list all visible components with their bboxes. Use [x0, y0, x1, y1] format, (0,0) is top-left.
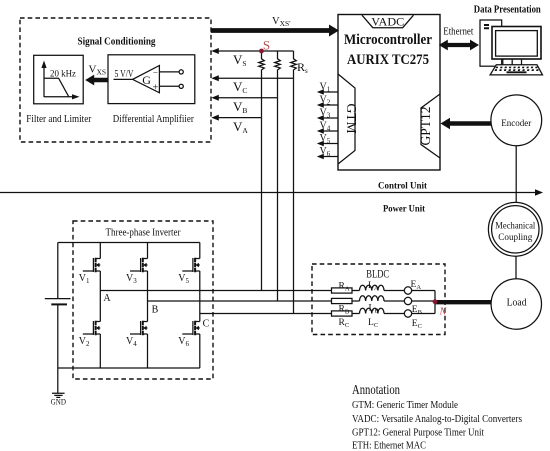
svg-text:C: C: [203, 319, 210, 330]
svg-text:G: G: [142, 73, 151, 87]
svg-text:AURIX TC275: AURIX TC275: [347, 52, 429, 68]
svg-text:B: B: [152, 305, 159, 316]
svg-text:Power Unit: Power Unit: [383, 204, 425, 214]
svg-text:Filter and Limiter: Filter and Limiter: [26, 114, 91, 125]
svg-text:GPT12: GPT12: [418, 106, 433, 145]
svg-text:Control Unit: Control Unit: [378, 181, 427, 191]
svg-text:20 kHz: 20 kHz: [50, 70, 76, 80]
svg-text:Differential Amplifiier: Differential Amplifiier: [113, 114, 194, 125]
svg-text:Three-phase Inverter: Three-phase Inverter: [106, 228, 182, 239]
svg-text:Data Presentation: Data Presentation: [474, 5, 541, 16]
svg-text:Annotation: Annotation: [352, 382, 400, 397]
svg-text:GND: GND: [51, 397, 66, 406]
svg-text:ETH: Ethernet MAC: ETH: Ethernet MAC: [352, 440, 426, 451]
svg-text:Mechanical: Mechanical: [495, 221, 535, 231]
svg-text:GTM: GTM: [344, 104, 359, 134]
svg-text:GTM: Generic Timer Module: GTM: Generic Timer Module: [352, 399, 458, 411]
svg-text:BLDC: BLDC: [366, 267, 389, 281]
svg-text:GPT12: General Purpose Timer U: GPT12: General Purpose Timer Unit: [352, 427, 484, 439]
svg-text:+: +: [153, 83, 159, 94]
svg-text:5 V/V: 5 V/V: [115, 69, 135, 80]
svg-text:S: S: [263, 38, 270, 53]
svg-text:A: A: [103, 293, 111, 304]
svg-text:Signal Conditioning: Signal Conditioning: [78, 36, 156, 48]
svg-text:VADC: VADC: [371, 14, 404, 28]
svg-text:VADC: Versatile Analog-to-Digi: VADC: Versatile Analog-to-Digital Conver…: [352, 413, 522, 425]
svg-text:Load: Load: [507, 298, 527, 309]
svg-text:N: N: [439, 307, 448, 318]
svg-text:−: −: [153, 67, 158, 77]
svg-text:Ethernet: Ethernet: [443, 26, 473, 37]
svg-text:Microcontroller: Microcontroller: [344, 32, 432, 48]
svg-text:Encoder: Encoder: [501, 119, 532, 129]
svg-text:Coupling: Coupling: [498, 233, 532, 243]
